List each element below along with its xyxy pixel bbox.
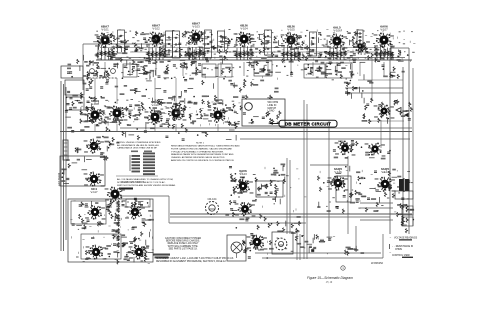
svg-text:RESISTANCE READINGS TAKEN WITH: RESISTANCE READINGS TAKEN WITH ALL TUBES…	[171, 145, 240, 148]
wire power lead 2	[262, 257, 383, 259]
wire stage drop 4	[182, 62, 184, 76]
alignment text block	[156, 257, 234, 263]
IF transformer T-107	[310, 32, 317, 56]
tube V-111 6BA6	[166, 106, 187, 122]
tube V-120	[125, 205, 146, 220]
svg-text:REPLACE FUSE F-101 ONLY: REPLACE FUSE F-101 ONLY	[168, 242, 199, 245]
under-stage scatter	[120, 77, 238, 96]
antenna coupling components	[67, 55, 120, 80]
stage box 1	[123, 64, 137, 77]
IF transformer T-102	[166, 31, 173, 57]
tuning cap components	[83, 60, 119, 90]
wire stage drop 8	[267, 62, 269, 76]
tube V-119	[85, 205, 106, 220]
wire left bus 3	[65, 87, 67, 240]
tube noise limiter V-113	[374, 105, 395, 119]
tuning gang capacitor C-101	[86, 69, 118, 78]
bfo inner parts	[72, 201, 104, 229]
stage box 4	[254, 61, 272, 76]
calibrator enclosure	[81, 234, 121, 259]
tube V-116	[365, 142, 386, 156]
svg-text:BEFORE REMOVING CHASSIS.: BEFORE REMOVING CHASSIS.	[166, 240, 200, 243]
svg-text:OHMS: OHMS	[395, 249, 402, 251]
svg-text:W-806352: W-806352	[371, 261, 383, 265]
scan texture lf section	[70, 201, 154, 264]
wire row2 drop 1	[94, 124, 96, 131]
legend row 1 voltage readings	[389, 236, 418, 241]
wire det feed 2	[345, 92, 403, 94]
svg-text:V-104: V-104	[240, 27, 248, 31]
note table column B	[143, 153, 155, 176]
output transformer T-109	[399, 178, 410, 192]
note block 3	[171, 145, 240, 163]
wire bottom bus 2	[170, 216, 390, 218]
svg-text:V-107: V-107	[380, 28, 388, 32]
wire right enclosure right	[408, 48, 410, 234]
wire right outer vertical	[412, 68, 414, 226]
svg-text:WITH 3AG 2 AMPERE TYPE.: WITH 3AG 2 AMPERE TYPE.	[168, 245, 199, 248]
tube V-109 6BA6	[107, 106, 128, 122]
first IF stage components	[125, 31, 171, 77]
wire center vert 6	[347, 156, 349, 234]
wire row2 drop 5	[217, 124, 219, 131]
svg-text:V-103: V-103	[192, 25, 200, 29]
wire to junction	[120, 195, 169, 197]
mixer components	[75, 137, 119, 160]
bfo components	[106, 198, 154, 233]
legend row 3 control rotation	[389, 251, 413, 258]
stage box 4 content	[259, 65, 270, 75]
speaker terminal box	[395, 191, 413, 199]
wire to output 3	[360, 219, 393, 221]
meter circuit components	[243, 111, 281, 124]
note block 2 bold mark	[119, 188, 133, 190]
second IF strip components	[80, 95, 242, 129]
wire row2 riser 2	[116, 78, 118, 104]
tube V-117 6C4 osc	[84, 172, 105, 195]
oscillator enclosure	[60, 156, 105, 186]
stage components under V-102	[149, 46, 163, 60]
wire stage drop 6	[220, 62, 222, 76]
tube V-126 6AQ5 output	[328, 167, 349, 191]
first audio components	[234, 164, 285, 205]
svg-text:CHASSIS. ASTERISK INDICATES VA: CHASSIS. ASTERISK INDICATES VALUE SELECT…	[171, 156, 225, 159]
output wiring components	[364, 169, 410, 212]
svg-text:NOTES: UNLESS OTHERWISE SPECIF: NOTES: UNLESS OTHERWISE SPECIFIED	[117, 142, 161, 144]
output stage components	[317, 166, 363, 214]
wire mid link	[310, 164, 348, 166]
feedback parts	[350, 192, 367, 202]
tube V-104 6BJ6 IF amp	[234, 24, 255, 48]
function switch content	[131, 199, 148, 207]
wire stage drop 13	[383, 62, 385, 76]
wire row2 riser 1	[94, 78, 96, 104]
speaker box	[227, 235, 246, 261]
wire row2 drop 4	[175, 124, 177, 131]
bus junction marks	[96, 127, 236, 141]
svg-text:ARROWS ON CONTROLS INDICATE CL: ARROWS ON CONTROLS INDICATE CLOCKWISE RO…	[171, 159, 234, 162]
stage components under V-106	[330, 46, 344, 60]
svg-text:CR-104: CR-104	[208, 197, 217, 201]
wire top box top	[83, 43, 171, 45]
wire stage drop 1	[104, 62, 106, 76]
svg-text:CAPACITANCE LESS THAN ONE IN M: CAPACITANCE LESS THAN ONE IN MF.	[117, 147, 158, 150]
wire center vert 1	[286, 158, 288, 234]
svg-text:NOTE 1: NOTE 1	[196, 143, 205, 145]
crystal filter content	[308, 64, 343, 78]
tone control components	[121, 232, 153, 261]
wire top box left	[82, 44, 84, 90]
meter feed components	[240, 79, 279, 100]
svg-text:-→ RESISTANCE IN: -→ RESISTANCE IN	[392, 245, 413, 248]
svg-text:→: →	[389, 236, 392, 239]
tube V-112 6AU6	[208, 98, 229, 123]
low frequency enclosure	[68, 199, 153, 262]
note table headers	[131, 151, 138, 153]
tube V-122	[129, 245, 150, 260]
stage box 2	[202, 64, 216, 77]
wire row2 drop 2	[116, 124, 118, 131]
antenna coil L-101	[63, 140, 68, 160]
row2 stage tops	[139, 62, 202, 80]
tube V-105 6BJ6 IF amp	[281, 25, 302, 49]
filter components	[295, 234, 332, 253]
tube V-108 6BA6	[85, 99, 106, 123]
wire row2 drop 3	[154, 124, 156, 131]
power supply components	[242, 234, 273, 259]
phono jack content	[257, 184, 279, 195]
wire limiter drop	[380, 120, 382, 148]
tube V-128 5Y3 rectifier	[247, 235, 268, 250]
IF transformer T-108	[357, 30, 363, 44]
phono input box	[61, 66, 83, 78]
tube V-118	[105, 187, 126, 203]
wire top coupling bus 3	[130, 51, 378, 53]
terminal strip TB-101	[65, 80, 84, 95]
diode CR-102	[404, 113, 409, 117]
tube V-123 6AV6 1st AF	[233, 169, 254, 194]
svg-text:↔: ↔	[389, 251, 392, 254]
IF transformer T-103	[173, 31, 180, 58]
tube V-107 6AV6 AF	[374, 25, 395, 49]
output stage box	[336, 176, 351, 202]
divider resistor chain R-140..R-146	[117, 200, 120, 205]
terminal strip TB-102	[66, 97, 84, 110]
AF coupling components	[333, 141, 391, 160]
svg-text:V-102: V-102	[152, 27, 160, 31]
svg-text:V-117: V-117	[90, 190, 98, 194]
callout DB METER CIRCUIT	[270, 120, 337, 127]
wire to output 2	[360, 207, 393, 209]
svg-text:SWITCH POSITIONS ARE SHOWN VIE: SWITCH POSITIONS ARE SHOWN VIEWED FROM R…	[117, 184, 176, 187]
wire heater bus	[240, 138, 410, 140]
tube V-127 6AQ5 output	[375, 167, 396, 192]
function switch box	[126, 199, 150, 207]
tube V-129 ballast	[275, 238, 287, 250]
wire right enclosure left	[389, 48, 391, 234]
third IF stage components	[246, 34, 314, 75]
ballast wiring	[225, 200, 237, 217]
wire top shelf bus 2	[110, 57, 405, 59]
wire AVC bus	[120, 127, 412, 129]
speaker components	[397, 203, 414, 233]
second IF stage components	[178, 31, 241, 76]
meter circuit text	[268, 101, 279, 113]
svg-text:V-105: V-105	[287, 28, 295, 32]
detector stage components	[315, 31, 358, 77]
scan texture row2 band	[81, 98, 241, 126]
svg-text:READINGS TAKEN WITH OHMMETER B: READINGS TAKEN WITH OHMMETER BETWEEN POI…	[171, 153, 234, 156]
svg-text:OSC BFO CAL SWITCH: OSC BFO CAL SWITCH	[120, 181, 144, 184]
wire ps vert 1	[296, 232, 298, 260]
RF input stage components	[93, 33, 127, 78]
left column parts	[65, 95, 85, 132]
IF transformer T-104	[205, 30, 212, 58]
wire bottom bus 3	[169, 222, 306, 224]
wire right enclosure mid	[402, 67, 404, 226]
svg-text:SEE PARTS LIST PAGE 18.: SEE PARTS LIST PAGE 18.	[169, 247, 198, 250]
tube CR-104 ballast	[206, 202, 219, 215]
wire stage drop 10	[312, 62, 314, 76]
wire stage drop 12	[359, 62, 361, 76]
tube V-102 6BA7 converter	[146, 24, 167, 48]
wire bottom bus 1	[170, 213, 412, 215]
wire enclosure corner left	[355, 226, 357, 252]
dropping resistor R-150	[319, 240, 325, 243]
oscillator parts	[61, 157, 89, 184]
AVC stage components	[360, 44, 409, 80]
phono jack box	[256, 181, 283, 197]
IF transformer T-101	[118, 30, 125, 53]
meter M-101	[245, 103, 253, 111]
svg-text:DESCRIBED IN ALIGNMENT PROCEDU: DESCRIBED IN ALIGNMENT PROCEDURE, SECTIO…	[156, 260, 227, 263]
wire top shelf bus	[96, 59, 412, 61]
stage components under V-105	[284, 46, 298, 60]
tube V-103 6BA7	[186, 22, 207, 46]
calibrator components	[85, 235, 146, 263]
svg-text:CAUTION: DISCONNECT POWER: CAUTION: DISCONNECT POWER	[165, 237, 201, 240]
wire stage drop 3	[155, 62, 157, 76]
stage components under V-107	[377, 46, 391, 60]
wire stage drop 5	[195, 62, 197, 76]
scan texture audio section	[238, 167, 306, 212]
wire ps vert 2	[299, 234, 301, 260]
caution text block	[165, 237, 201, 250]
svg-text:Figure 15—Schematic Diagram: Figure 15—Schematic Diagram	[307, 276, 353, 280]
wire right enclosure top	[390, 47, 409, 49]
wire to output 1	[360, 202, 393, 204]
wire note rule	[116, 175, 158, 177]
stage components under V-103	[189, 47, 203, 60]
wire center vert 2	[289, 160, 291, 234]
tube V-114 6BE6 mixer	[84, 139, 105, 154]
wire left bus 1	[60, 81, 62, 251]
wire det drop	[371, 58, 373, 100]
tube V-106 6AL5 det	[327, 26, 348, 50]
small ballast parts	[352, 42, 364, 60]
field coil box	[402, 217, 413, 226]
note block 2	[117, 178, 176, 187]
tube V-124	[235, 202, 256, 217]
svg-text:V-123: V-123	[239, 172, 247, 176]
note block 1	[117, 142, 161, 150]
wire row2 riser 4	[175, 78, 177, 104]
svg-text:ANT TERM: ANT TERM	[57, 173, 61, 186]
filter choke box	[402, 206, 413, 215]
note table column A	[130, 155, 140, 172]
tube V-115	[335, 140, 356, 155]
IF transformer T-106	[265, 30, 272, 55]
scan texture top band	[96, 29, 415, 62]
bfo enclosure	[71, 201, 106, 224]
tube V-121	[86, 245, 107, 260]
loudness control label	[153, 254, 170, 259]
tube ballast small	[350, 40, 371, 54]
audio bus components	[236, 214, 301, 234]
wire left bus 2	[63, 84, 65, 251]
wire det feed 1	[345, 87, 403, 89]
svg-text:15, 16: 15, 16	[326, 282, 333, 284]
wire B+ bus	[60, 131, 412, 133]
meter circuit enclosure	[242, 99, 285, 126]
svg-text:VOLTAGE READINGS: VOLTAGE READINGS	[394, 237, 418, 240]
noise limiter components	[362, 98, 413, 124]
svg-text:FILTER CAPACITORS DISCHARGED.: FILTER CAPACITORS DISCHARGED. VALUES SHO…	[171, 147, 232, 150]
wire stage drop 9	[290, 62, 292, 76]
legend row 2 resistance readings	[390, 244, 414, 251]
speaker	[231, 242, 242, 258]
wire top coupling bus	[100, 47, 380, 49]
diode CR-101	[396, 108, 401, 113]
stage box 3	[218, 64, 232, 77]
circled note marker	[341, 266, 345, 270]
IF transformer T-105	[218, 31, 225, 52]
wire center vert 4	[306, 104, 308, 259]
wire stage drop 11	[336, 62, 338, 76]
wire vertical junction	[168, 196, 170, 223]
wire power lead	[255, 252, 381, 254]
svg-text:ALIGNMENT: ADJUST L-102, L-103: ALIGNMENT: ADJUST L-102, L-103 AND T-101…	[156, 257, 234, 260]
wire center vert 3	[303, 100, 305, 259]
svg-text:TYPICAL OF A NORMALLY OPERATIN: TYPICAL OF A NORMALLY OPERATING RECEIVER…	[171, 150, 224, 153]
stage components under V-101	[98, 46, 112, 60]
svg-text:DB METER CIRCUIT: DB METER CIRCUIT	[285, 122, 331, 127]
scan texture power section	[241, 235, 335, 255]
right column parts	[229, 166, 245, 196]
crystal filter box 2	[326, 63, 352, 78]
wire row2 riser 3	[154, 78, 156, 104]
wire det link	[358, 79, 403, 81]
terminal strip content	[67, 79, 83, 107]
scan texture output section	[320, 170, 413, 215]
det coupling components	[344, 80, 374, 99]
divider chain labels	[106, 200, 125, 264]
rectifier box	[272, 232, 293, 254]
stage components under V-104	[237, 46, 251, 60]
svg-text:V-106: V-106	[333, 29, 341, 33]
tube V-110 6BA6	[145, 100, 166, 125]
svg-text:ALL RESISTANCE VALUES IN OHMS,: ALL RESISTANCE VALUES IN OHMS, ALL	[117, 144, 160, 147]
wire row2 riser 5	[217, 78, 219, 104]
crystal filter box	[304, 64, 325, 78]
wire stage drop 2	[129, 62, 131, 76]
wire stage drop 7	[243, 62, 245, 76]
tube V-101 6BA7 RF amp	[95, 25, 116, 49]
svg-text:V-101: V-101	[101, 28, 109, 32]
wire center vert 5	[328, 121, 330, 241]
line cord parts	[345, 246, 365, 256]
wire enclosure corner right	[382, 234, 384, 258]
wire limiter link	[366, 120, 404, 122]
svg-text:LOAD: LOAD	[268, 110, 275, 113]
scan texture substage band	[121, 62, 358, 81]
